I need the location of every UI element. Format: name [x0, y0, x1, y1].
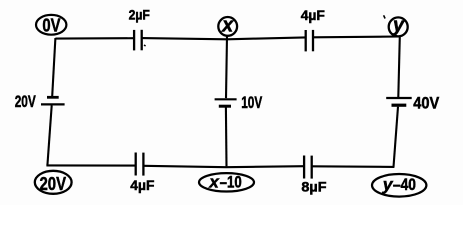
wire middle vertical lower — [225, 108, 228, 167]
wire top-left segment — [55, 37, 134, 39]
wire bottom-middle segment — [144, 166, 305, 167]
wire bottom-right segment — [312, 165, 395, 168]
node x — [218, 15, 237, 37]
svg-text:20V: 20V — [40, 173, 67, 194]
wire right vertical upper — [398, 36, 400, 97]
svg-text:y: y — [392, 15, 405, 37]
svg-text:–10: –10 — [220, 174, 242, 192]
battery B3 40V — [386, 94, 439, 112]
capacitor C4 8uF — [301, 156, 327, 195]
svg-text:0V: 0V — [42, 14, 61, 35]
wire middle vertical upper — [226, 36, 227, 98]
battery B2 10V — [215, 94, 263, 112]
node y — [389, 15, 408, 37]
wire left vertical lower — [47, 106, 51, 166]
svg-text:y: y — [382, 176, 394, 194]
svg-text:4µF: 4µF — [130, 177, 155, 193]
capacitor C1 2uF — [129, 8, 150, 51]
capacitor C2 4uF — [301, 7, 326, 51]
wire bottom-left segment — [46, 164, 135, 166]
svg-text:x: x — [208, 174, 220, 192]
battery B1 20V — [15, 93, 65, 111]
wire top-right segment — [313, 35, 400, 38]
svg-text:20V: 20V — [15, 93, 36, 111]
svg-text:x: x — [221, 15, 234, 37]
wire top-middle segment — [142, 37, 306, 39]
node 0V — [36, 14, 66, 35]
wire left vertical upper — [52, 38, 55, 96]
svg-text:2µF: 2µF — [129, 8, 150, 23]
node 20V — [35, 171, 72, 194]
node y-40 — [372, 174, 426, 197]
svg-text:10V: 10V — [241, 94, 262, 112]
svg-text:8µF: 8µF — [301, 178, 327, 194]
capacitor C3 4uF — [130, 153, 155, 194]
svg-text:40V: 40V — [413, 94, 439, 112]
node x-10 — [199, 173, 254, 192]
svg-text:–40: –40 — [393, 176, 416, 194]
svg-text:4µF: 4µF — [301, 7, 326, 23]
wire right vertical lower — [394, 107, 399, 167]
